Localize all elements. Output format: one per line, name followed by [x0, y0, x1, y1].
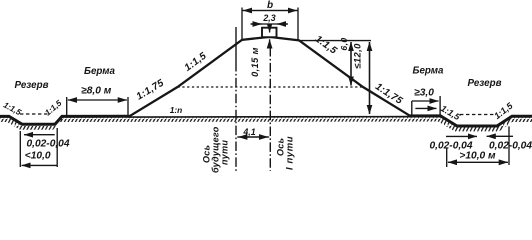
svg-text:Берма: Берма — [84, 66, 115, 77]
ground surface line — [0, 116, 532, 126]
svg-text:I пути: I пути — [285, 136, 296, 170]
top extension line right — [300, 40, 371, 42]
axis of track I (dash-dot) — [269, 47, 271, 171]
dimension <10,0 — [19, 131, 21, 167]
svg-text:0,15 м: 0,15 м — [250, 47, 260, 77]
svg-text:Резерв: Резерв — [467, 78, 501, 89]
svg-text:6,0: 6,0 — [339, 37, 349, 50]
left cross-fall arrow — [24, 134, 55, 136]
arrow up to crest — [269, 39, 271, 47]
dimension b — [241, 8, 243, 40]
left ditch dashed top — [20, 113, 50, 115]
dimension &le;12,0 — [369, 42, 371, 114]
ground hatch band left of left ditch — [0, 116, 532, 132]
svg-text:≥3,0: ≥3,0 — [414, 88, 434, 99]
arrow down to ballast — [269, 24, 271, 33]
svg-text:0,02-0,04: 0,02-0,04 — [26, 138, 69, 149]
embankment outline — [130, 37, 411, 116]
slope break dashed line — [178, 86, 364, 88]
svg-text:пути: пути — [220, 140, 230, 165]
svg-text:>10,0 м: >10,0 м — [459, 151, 496, 162]
svg-text:2,3: 2,3 — [262, 13, 275, 23]
dimension >=3,0 (berm right) — [411, 101, 413, 115]
dimension 4,1 between axes — [237, 136, 269, 138]
dimension >10,0 m — [446, 148, 448, 167]
svg-text:<10,0: <10,0 — [25, 150, 51, 161]
svg-text:Берма: Берма — [413, 66, 444, 77]
svg-text:1:n: 1:n — [170, 105, 183, 115]
right ditch dashed top — [460, 114, 495, 116]
dimension 6,0 — [350, 42, 352, 86]
svg-text:≤12,0: ≤12,0 — [352, 43, 363, 69]
svg-text:Резерв: Резерв — [14, 80, 48, 91]
dimension >=8,0 m — [66, 97, 68, 116]
ballast prism — [262, 28, 277, 38]
axis of future track (dash-dot) — [235, 27, 237, 62]
svg-text:4,1: 4,1 — [242, 127, 255, 137]
svg-text:b: b — [267, 0, 273, 11]
dimension 2,3 — [251, 23, 289, 25]
svg-text:≥8,0 м: ≥8,0 м — [81, 86, 112, 97]
right ditch bottom arrows — [446, 135, 477, 137]
